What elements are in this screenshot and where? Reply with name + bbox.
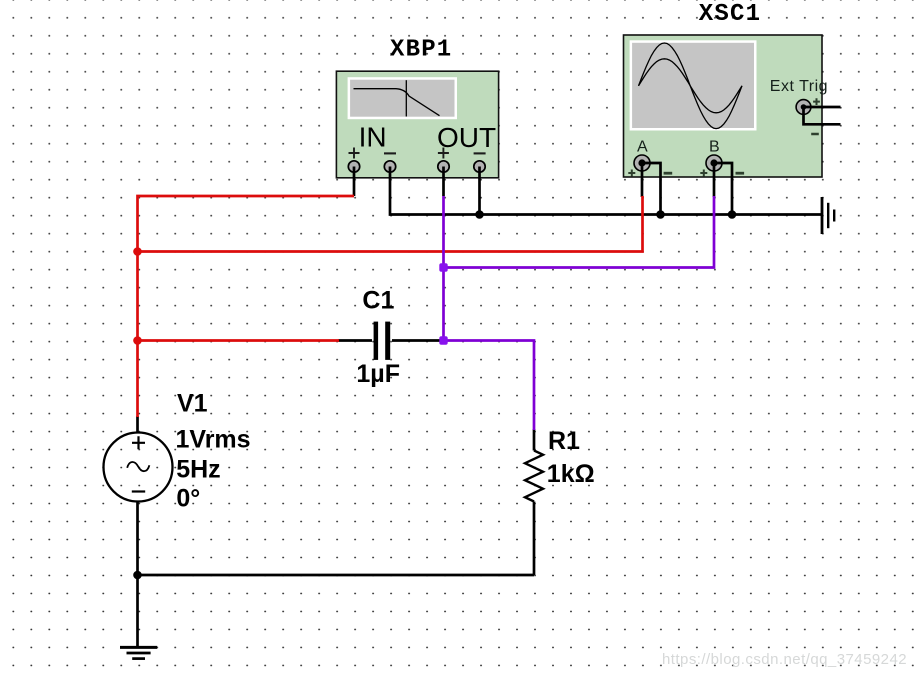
svg-text:A: A — [637, 139, 648, 156]
svg-text:IN: IN — [359, 122, 387, 153]
svg-text:B: B — [709, 139, 720, 156]
svg-text:XBP1: XBP1 — [390, 36, 452, 63]
svg-text:1kΩ: 1kΩ — [547, 460, 595, 488]
svg-text:5Hz: 5Hz — [176, 455, 220, 483]
svg-text:0°: 0° — [176, 485, 200, 513]
svg-text:1Vrms: 1Vrms — [176, 426, 251, 454]
svg-text:C1: C1 — [362, 286, 394, 314]
svg-text:Ext Trig: Ext Trig — [770, 78, 828, 95]
svg-text:R1: R1 — [548, 427, 580, 455]
svg-text:1µF: 1µF — [356, 360, 400, 388]
svg-text:XSC1: XSC1 — [699, 1, 761, 28]
svg-text:V1: V1 — [177, 389, 208, 417]
svg-text:OUT: OUT — [437, 122, 496, 153]
